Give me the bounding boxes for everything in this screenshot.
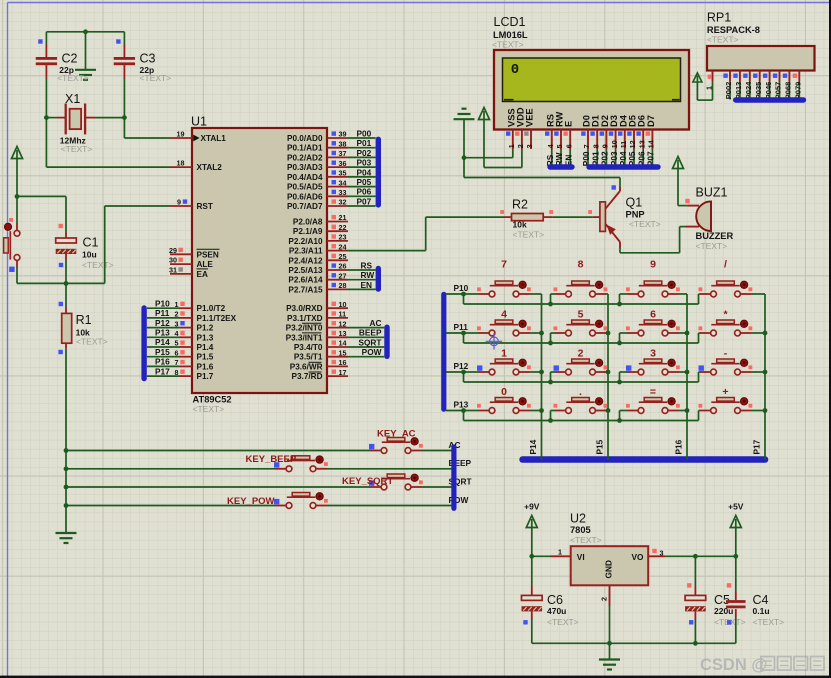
wire column P15 xyxy=(607,294,609,460)
svg-text:18: 18 xyxy=(177,159,185,168)
junction column P14 row 2 xyxy=(539,370,544,375)
lcd screen xyxy=(503,58,681,102)
pin P3.3 (13) wire xyxy=(327,336,348,338)
resistor R2 xyxy=(503,216,512,218)
svg-text:6: 6 xyxy=(650,309,656,321)
pin P1.3 (4) wire xyxy=(147,336,179,338)
pin P2.3 (24) wire to R2 xyxy=(327,250,348,252)
svg-text:C3: C3 xyxy=(140,52,156,66)
svg-text:P03: P03 xyxy=(357,158,372,168)
svg-text:P0.0/AD0: P0.0/AD0 xyxy=(287,134,323,143)
wire net XTAL top xyxy=(46,31,124,33)
svg-text:22: 22 xyxy=(339,223,347,232)
push button key 0 xyxy=(495,398,513,402)
junction X1 right xyxy=(122,115,127,120)
wire net SQRT xyxy=(66,486,371,488)
junction C4 top xyxy=(733,554,738,559)
svg-text:C2: C2 xyxy=(62,52,78,66)
svg-text:P06: P06 xyxy=(357,187,372,197)
pin PSEN (29) xyxy=(170,253,192,255)
svg-text:P2.0/A8: P2.0/A8 xyxy=(293,218,323,227)
svg-text:39: 39 xyxy=(339,130,347,139)
svg-text:P1.0/T2: P1.0/T2 xyxy=(197,304,226,313)
wire C2 to XTAL2 xyxy=(45,118,47,168)
wire riser row 1 col 3 xyxy=(619,333,621,343)
push button KEY_BEEP xyxy=(292,456,310,460)
wire riser row 3 col 2 xyxy=(550,411,552,421)
op-amp U1 body AT89C52 xyxy=(192,128,327,393)
wire key col 2 to column xyxy=(679,293,688,295)
power +5V terminal (RP1) xyxy=(693,73,702,82)
pin P0.0 (39) wire xyxy=(327,137,348,139)
svg-text:P12: P12 xyxy=(454,361,469,371)
svg-text:P10: P10 xyxy=(155,298,170,308)
pin P0.2 (37) wire xyxy=(327,156,348,158)
svg-text:10k: 10k xyxy=(513,220,527,230)
svg-text:27: 27 xyxy=(339,271,347,280)
svg-text:P1.5: P1.5 xyxy=(197,353,214,362)
svg-text:<TEXT>: <TEXT> xyxy=(696,241,728,251)
svg-text:E: E xyxy=(564,121,574,127)
wire riser row 2 col 4 xyxy=(698,372,700,382)
svg-text:P3.5/T1: P3.5/T1 xyxy=(294,353,323,362)
svg-text:14: 14 xyxy=(339,339,347,348)
buzzer BUZ1 xyxy=(687,205,699,207)
junction column P14 row 1 xyxy=(539,331,544,336)
svg-text:8: 8 xyxy=(578,259,584,271)
svg-text:LM016L: LM016L xyxy=(493,30,528,40)
svg-text:P2.7/A15: P2.7/A15 xyxy=(288,285,323,294)
resistor pack RP1 body xyxy=(707,46,815,71)
svg-text:33: 33 xyxy=(339,188,347,197)
svg-text:RST: RST xyxy=(197,202,213,211)
svg-text:P1.3: P1.3 xyxy=(197,333,214,342)
svg-text:R1: R1 xyxy=(76,313,92,327)
svg-text:<TEXT>: <TEXT> xyxy=(753,617,785,627)
wire to C1 top xyxy=(17,195,66,197)
svg-text:P1.6: P1.6 xyxy=(197,362,214,371)
svg-text:POW: POW xyxy=(362,347,382,357)
push button KEY_AC xyxy=(387,438,405,442)
svg-text:13: 13 xyxy=(637,140,646,148)
svg-text:RS: RS xyxy=(361,260,373,270)
bus keypad columns P14-P17 xyxy=(519,456,768,463)
svg-text:P17: P17 xyxy=(155,366,170,376)
svg-text:P07: P07 xyxy=(357,196,372,206)
svg-text:P002: P002 xyxy=(724,82,733,100)
svg-text:BEEP: BEEP xyxy=(359,328,382,338)
svg-text:17: 17 xyxy=(339,368,347,377)
wire key col 3 to column xyxy=(751,332,765,334)
svg-text:<TEXT>: <TEXT> xyxy=(629,219,661,229)
svg-text:P16: P16 xyxy=(155,357,170,367)
pin U2 3 xyxy=(648,555,665,557)
svg-text:KEY_POW: KEY_POW xyxy=(227,496,275,507)
svg-text:2: 2 xyxy=(516,144,525,148)
svg-text:SQRT: SQRT xyxy=(358,337,381,347)
svg-text:34: 34 xyxy=(339,178,347,187)
junction column P17 row 3 xyxy=(763,408,768,413)
svg-text:23: 23 xyxy=(339,233,347,242)
junction reset top xyxy=(15,194,20,199)
svg-text:12: 12 xyxy=(339,319,347,328)
wire LCD data pins to bus xyxy=(587,149,589,169)
junction AC left xyxy=(64,448,69,453)
wire keypad row P11 xyxy=(446,332,464,334)
svg-text:9: 9 xyxy=(177,198,181,207)
push button KEY_SQRT xyxy=(387,474,405,478)
pin P2.7 (28) wire xyxy=(327,288,348,290)
svg-text:9: 9 xyxy=(601,144,610,148)
junction U2 VI node xyxy=(529,554,534,559)
pin P0.7 (32) wire xyxy=(327,205,348,207)
wire RST to U1 xyxy=(66,282,105,284)
svg-text:P0.3/AD3: P0.3/AD3 xyxy=(287,163,323,172)
svg-text:=: = xyxy=(650,386,656,398)
junction row P10 xyxy=(461,292,466,297)
svg-text:P17: P17 xyxy=(752,439,762,454)
svg-text:470u: 470u xyxy=(547,606,566,616)
wire VDD xyxy=(484,167,522,169)
pin P0.4 (35) wire xyxy=(327,176,348,178)
push button key - xyxy=(717,359,735,363)
capacitor C4 xyxy=(735,556,737,592)
pin P2.5 (26) wire xyxy=(327,269,348,271)
wire buzzer top xyxy=(678,205,687,207)
cursor crosshair xyxy=(490,337,499,346)
svg-text:P068: P068 xyxy=(784,82,793,100)
junction column P15 row 3 xyxy=(606,408,611,413)
svg-text:P10: P10 xyxy=(454,283,469,293)
junction row P11 xyxy=(461,331,466,336)
pin XTAL1 (19) xyxy=(170,137,192,139)
wire column P16 xyxy=(686,294,688,460)
svg-text:VEE: VEE xyxy=(525,108,535,127)
svg-text:13: 13 xyxy=(339,329,347,338)
svg-text:P2.6/A14: P2.6/A14 xyxy=(288,276,323,285)
svg-text:2: 2 xyxy=(578,348,584,360)
push button key 1 xyxy=(495,359,513,363)
svg-text:38: 38 xyxy=(339,139,347,148)
svg-text:P0.4/AD4: P0.4/AD4 xyxy=(287,173,323,182)
pin P1.4 (5) wire xyxy=(147,346,179,348)
svg-text:P1.1/T2EX: P1.1/T2EX xyxy=(197,314,237,323)
wire column P14 xyxy=(541,294,543,460)
svg-text:5: 5 xyxy=(555,144,564,148)
pin P1.0 (1) wire xyxy=(147,307,179,309)
svg-text:C5: C5 xyxy=(714,593,730,607)
resistor R1 xyxy=(65,283,67,308)
pin P3.2 (12) wire xyxy=(327,327,348,329)
junction rail pin2 xyxy=(607,641,612,646)
svg-text:1: 1 xyxy=(704,86,713,90)
wire key col 3 to column xyxy=(751,410,765,412)
ground left rail xyxy=(56,532,77,534)
svg-text:<TEXT>: <TEXT> xyxy=(76,337,108,347)
svg-text:P035: P035 xyxy=(754,82,763,100)
wire left rail to ground xyxy=(65,451,67,534)
svg-text:4: 4 xyxy=(501,309,507,321)
pin RP1 8 xyxy=(788,71,790,82)
pin RP1 4 xyxy=(749,71,751,82)
wire key col 0 to column xyxy=(530,410,542,412)
svg-text:+: + xyxy=(722,386,728,398)
svg-text:7805: 7805 xyxy=(570,525,591,535)
svg-text:15: 15 xyxy=(339,348,347,357)
svg-text:12: 12 xyxy=(628,140,637,148)
svg-text:<TEXT>: <TEXT> xyxy=(707,35,739,45)
pin P2.2 (23) stub xyxy=(327,240,348,242)
push button key 2 xyxy=(572,359,590,363)
push button key . xyxy=(572,398,590,402)
pin RP1 1 xyxy=(712,71,714,82)
crystal X1 xyxy=(46,117,57,119)
svg-text:RW: RW xyxy=(361,270,375,280)
svg-text:RP1: RP1 xyxy=(707,11,731,25)
svg-text:VO: VO xyxy=(632,552,645,562)
pin U2 2 xyxy=(609,585,611,606)
ground LCD VSS (flipped) xyxy=(454,118,475,120)
bus RP1 xyxy=(733,97,806,103)
svg-text:19: 19 xyxy=(177,130,185,139)
svg-text:1: 1 xyxy=(558,547,562,556)
svg-text:26: 26 xyxy=(339,262,347,271)
svg-text:1: 1 xyxy=(175,300,179,309)
wire key col 2 to column xyxy=(679,410,688,412)
svg-text:C1: C1 xyxy=(83,236,99,250)
pin U2 1 xyxy=(532,555,551,557)
svg-text:11: 11 xyxy=(339,310,347,319)
pin P0.5 (34) wire xyxy=(327,186,348,188)
watermark CSDN xyxy=(700,656,824,674)
svg-text:AT89C52: AT89C52 xyxy=(193,395,232,405)
pin P2.0 (21) stub xyxy=(327,221,348,223)
wire column P17 xyxy=(764,294,766,460)
junction POW left xyxy=(64,503,69,508)
wire C3 to XTAL1 xyxy=(123,118,125,138)
regulator U2 body xyxy=(571,546,649,585)
svg-text:P2.5/A13: P2.5/A13 xyxy=(288,266,323,275)
wire key col 2 to column xyxy=(679,371,688,373)
push button key * xyxy=(717,320,735,324)
svg-text:P024: P024 xyxy=(744,81,753,99)
svg-text:P013: P013 xyxy=(734,82,743,100)
svg-text:4: 4 xyxy=(175,329,179,338)
svg-text:28: 28 xyxy=(339,281,347,290)
pin RST (9) xyxy=(170,205,192,207)
wire U2 ground rail xyxy=(532,642,736,644)
svg-text:P1.4: P1.4 xyxy=(197,343,214,352)
pin ALE (30) xyxy=(170,263,192,265)
svg-text:0: 0 xyxy=(501,386,507,398)
pin P0.1 (38) wire xyxy=(327,147,348,149)
ground crystal caps xyxy=(85,32,87,70)
pin P3.5 (15) wire xyxy=(327,356,348,358)
svg-text:P3.3/INT1: P3.3/INT1 xyxy=(286,333,323,342)
pin P2.1 (22) stub xyxy=(327,230,348,232)
wire key col 3 to column xyxy=(751,293,765,295)
bus keypad rows P10-P13 xyxy=(441,292,446,412)
svg-text:P079: P079 xyxy=(794,82,803,100)
svg-text:P12: P12 xyxy=(155,318,170,328)
svg-text:8: 8 xyxy=(175,368,179,377)
svg-text:P16: P16 xyxy=(674,439,684,454)
push button KEY_POW xyxy=(292,493,310,497)
svg-text:AC: AC xyxy=(370,318,382,328)
svg-text:9: 9 xyxy=(650,259,656,271)
push button reset xyxy=(16,196,18,223)
wire riser row 1 col 2 xyxy=(550,333,552,343)
junction VSS node xyxy=(462,155,467,160)
bus LCD data xyxy=(586,164,660,170)
junction column P14 row 3 xyxy=(539,408,544,413)
wire riser row 1 col 4 xyxy=(698,333,700,343)
wire Q1 emitter to buzzer xyxy=(620,252,680,254)
svg-text:P2.1/A9: P2.1/A9 xyxy=(293,227,323,236)
capacitor C6 xyxy=(531,556,533,586)
svg-text:14: 14 xyxy=(647,140,656,148)
svg-text:P11: P11 xyxy=(155,308,170,318)
pin RP1 2 xyxy=(729,71,731,82)
svg-text:P13: P13 xyxy=(155,328,170,338)
svg-text:P0.6/AD6: P0.6/AD6 xyxy=(287,192,323,201)
svg-text:36: 36 xyxy=(339,159,347,168)
wire key col 3 to column xyxy=(751,371,765,373)
svg-text:35: 35 xyxy=(339,169,347,178)
push button key 5 xyxy=(572,320,590,324)
svg-text:6: 6 xyxy=(175,348,179,357)
svg-text:7: 7 xyxy=(175,358,179,367)
svg-text:P3.1/TXD: P3.1/TXD xyxy=(287,314,323,323)
svg-text:<TEXT>: <TEXT> xyxy=(61,144,93,154)
svg-text:PNP: PNP xyxy=(626,210,645,220)
svg-text:P15: P15 xyxy=(155,347,170,357)
svg-text:+5V: +5V xyxy=(728,502,744,512)
wire key col 1 to column xyxy=(606,371,608,373)
svg-text:P14: P14 xyxy=(528,439,538,454)
svg-text:P1.2: P1.2 xyxy=(197,324,214,333)
pin P0.3 (36) wire xyxy=(327,166,348,168)
svg-text:C4: C4 xyxy=(753,593,769,607)
svg-text:3: 3 xyxy=(660,548,664,557)
svg-text:P02: P02 xyxy=(357,148,372,158)
svg-text:7: 7 xyxy=(582,144,591,148)
bus function keys xyxy=(451,444,456,511)
svg-text:P2.3/A11: P2.3/A11 xyxy=(289,247,323,256)
wire riser row 2 col 2 xyxy=(550,372,552,382)
svg-text:P3.7/RD: P3.7/RD xyxy=(292,372,323,381)
svg-text:37: 37 xyxy=(339,149,347,158)
svg-text:CSDN @: CSDN @ xyxy=(700,656,767,674)
svg-text:<TEXT>: <TEXT> xyxy=(513,230,545,240)
wire riser row 0 col 4 xyxy=(698,294,700,304)
svg-text:7: 7 xyxy=(501,259,507,271)
svg-text:16: 16 xyxy=(339,358,347,367)
pin RP1 3 xyxy=(739,71,741,82)
svg-text:11: 11 xyxy=(619,141,628,149)
wire VSS xyxy=(464,157,513,159)
svg-text:KEY_BEEP: KEY_BEEP xyxy=(246,454,297,465)
capacitor C3 xyxy=(123,32,125,45)
svg-text:P13: P13 xyxy=(454,400,469,410)
svg-text:.: . xyxy=(579,386,582,398)
wire net POW xyxy=(66,505,276,507)
svg-text:P00: P00 xyxy=(357,128,372,138)
svg-text:P0.2/AD2: P0.2/AD2 xyxy=(287,153,323,162)
pin P3.7 (17) stub xyxy=(327,375,348,377)
transistor Q1 xyxy=(600,202,606,232)
svg-text:1: 1 xyxy=(501,348,507,360)
pin RP1 5 xyxy=(759,71,761,82)
svg-text:BUZZER: BUZZER xyxy=(696,231,734,241)
push button key + xyxy=(717,398,735,402)
wire riser row 3 col 3 xyxy=(619,411,621,421)
svg-text:1: 1 xyxy=(507,144,516,148)
power +5V terminal (reset) xyxy=(12,147,23,159)
junction SQRT left xyxy=(64,485,69,490)
pin P1.6 (7) wire xyxy=(147,365,179,367)
pin RP1 7 xyxy=(779,71,781,82)
pin RP1 9 xyxy=(798,71,800,82)
svg-text:KEY_AC: KEY_AC xyxy=(377,429,416,440)
svg-text:29: 29 xyxy=(169,246,177,255)
push button key 7 xyxy=(495,281,513,285)
wire reset bottom xyxy=(17,282,66,284)
pin P0.6 (33) wire xyxy=(327,195,348,197)
junction C5 top xyxy=(693,554,698,559)
push button key 3 xyxy=(644,359,662,363)
power +5V terminal (buzzer) xyxy=(673,157,684,169)
push button key 6 xyxy=(644,320,662,324)
svg-text:U1: U1 xyxy=(191,115,207,129)
svg-text:P3.0/RXD: P3.0/RXD xyxy=(286,304,322,313)
svg-text:<TEXT>: <TEXT> xyxy=(570,535,602,545)
bus P1 xyxy=(141,305,146,381)
wire keypad row P13 xyxy=(446,410,464,412)
svg-text:31: 31 xyxy=(169,266,177,275)
pin P1.1 (2) wire xyxy=(147,317,179,319)
svg-text:<TEXT>: <TEXT> xyxy=(193,404,225,414)
junction column P16 row 1 xyxy=(685,331,690,336)
svg-text:2: 2 xyxy=(175,310,179,319)
svg-text:32: 32 xyxy=(339,198,347,207)
svg-text:P05: P05 xyxy=(357,177,372,187)
svg-text:Q1: Q1 xyxy=(626,196,643,210)
wire riser row 2 col 3 xyxy=(619,372,621,382)
svg-text:0.1u: 0.1u xyxy=(753,606,770,616)
junction RST node xyxy=(64,281,69,286)
pin P3.6 (16) stub xyxy=(327,365,348,367)
svg-text:PSEN: PSEN xyxy=(197,250,219,259)
pin RP1 6 xyxy=(769,71,771,82)
svg-text:<TEXT>: <TEXT> xyxy=(547,617,579,627)
svg-text:25: 25 xyxy=(339,252,347,261)
svg-text:X1: X1 xyxy=(65,92,80,106)
junction column P15 row 2 xyxy=(606,370,611,375)
svg-text:<TEXT>: <TEXT> xyxy=(82,260,114,270)
svg-text:LCD1: LCD1 xyxy=(494,15,526,29)
pin P1.2 (3) wire xyxy=(147,327,179,329)
junction X1 left xyxy=(44,115,49,120)
wire key col 1 to column xyxy=(606,293,608,295)
svg-text:BUZ1: BUZ1 xyxy=(696,186,728,200)
svg-text:EA: EA xyxy=(197,270,208,279)
junction column P17 row 2 xyxy=(763,370,768,375)
svg-text:P0.1/AD1: P0.1/AD1 xyxy=(287,144,323,153)
svg-text:C6: C6 xyxy=(547,593,563,607)
svg-text:<TEXT>: <TEXT> xyxy=(140,73,172,83)
push button key 8 xyxy=(572,281,590,285)
